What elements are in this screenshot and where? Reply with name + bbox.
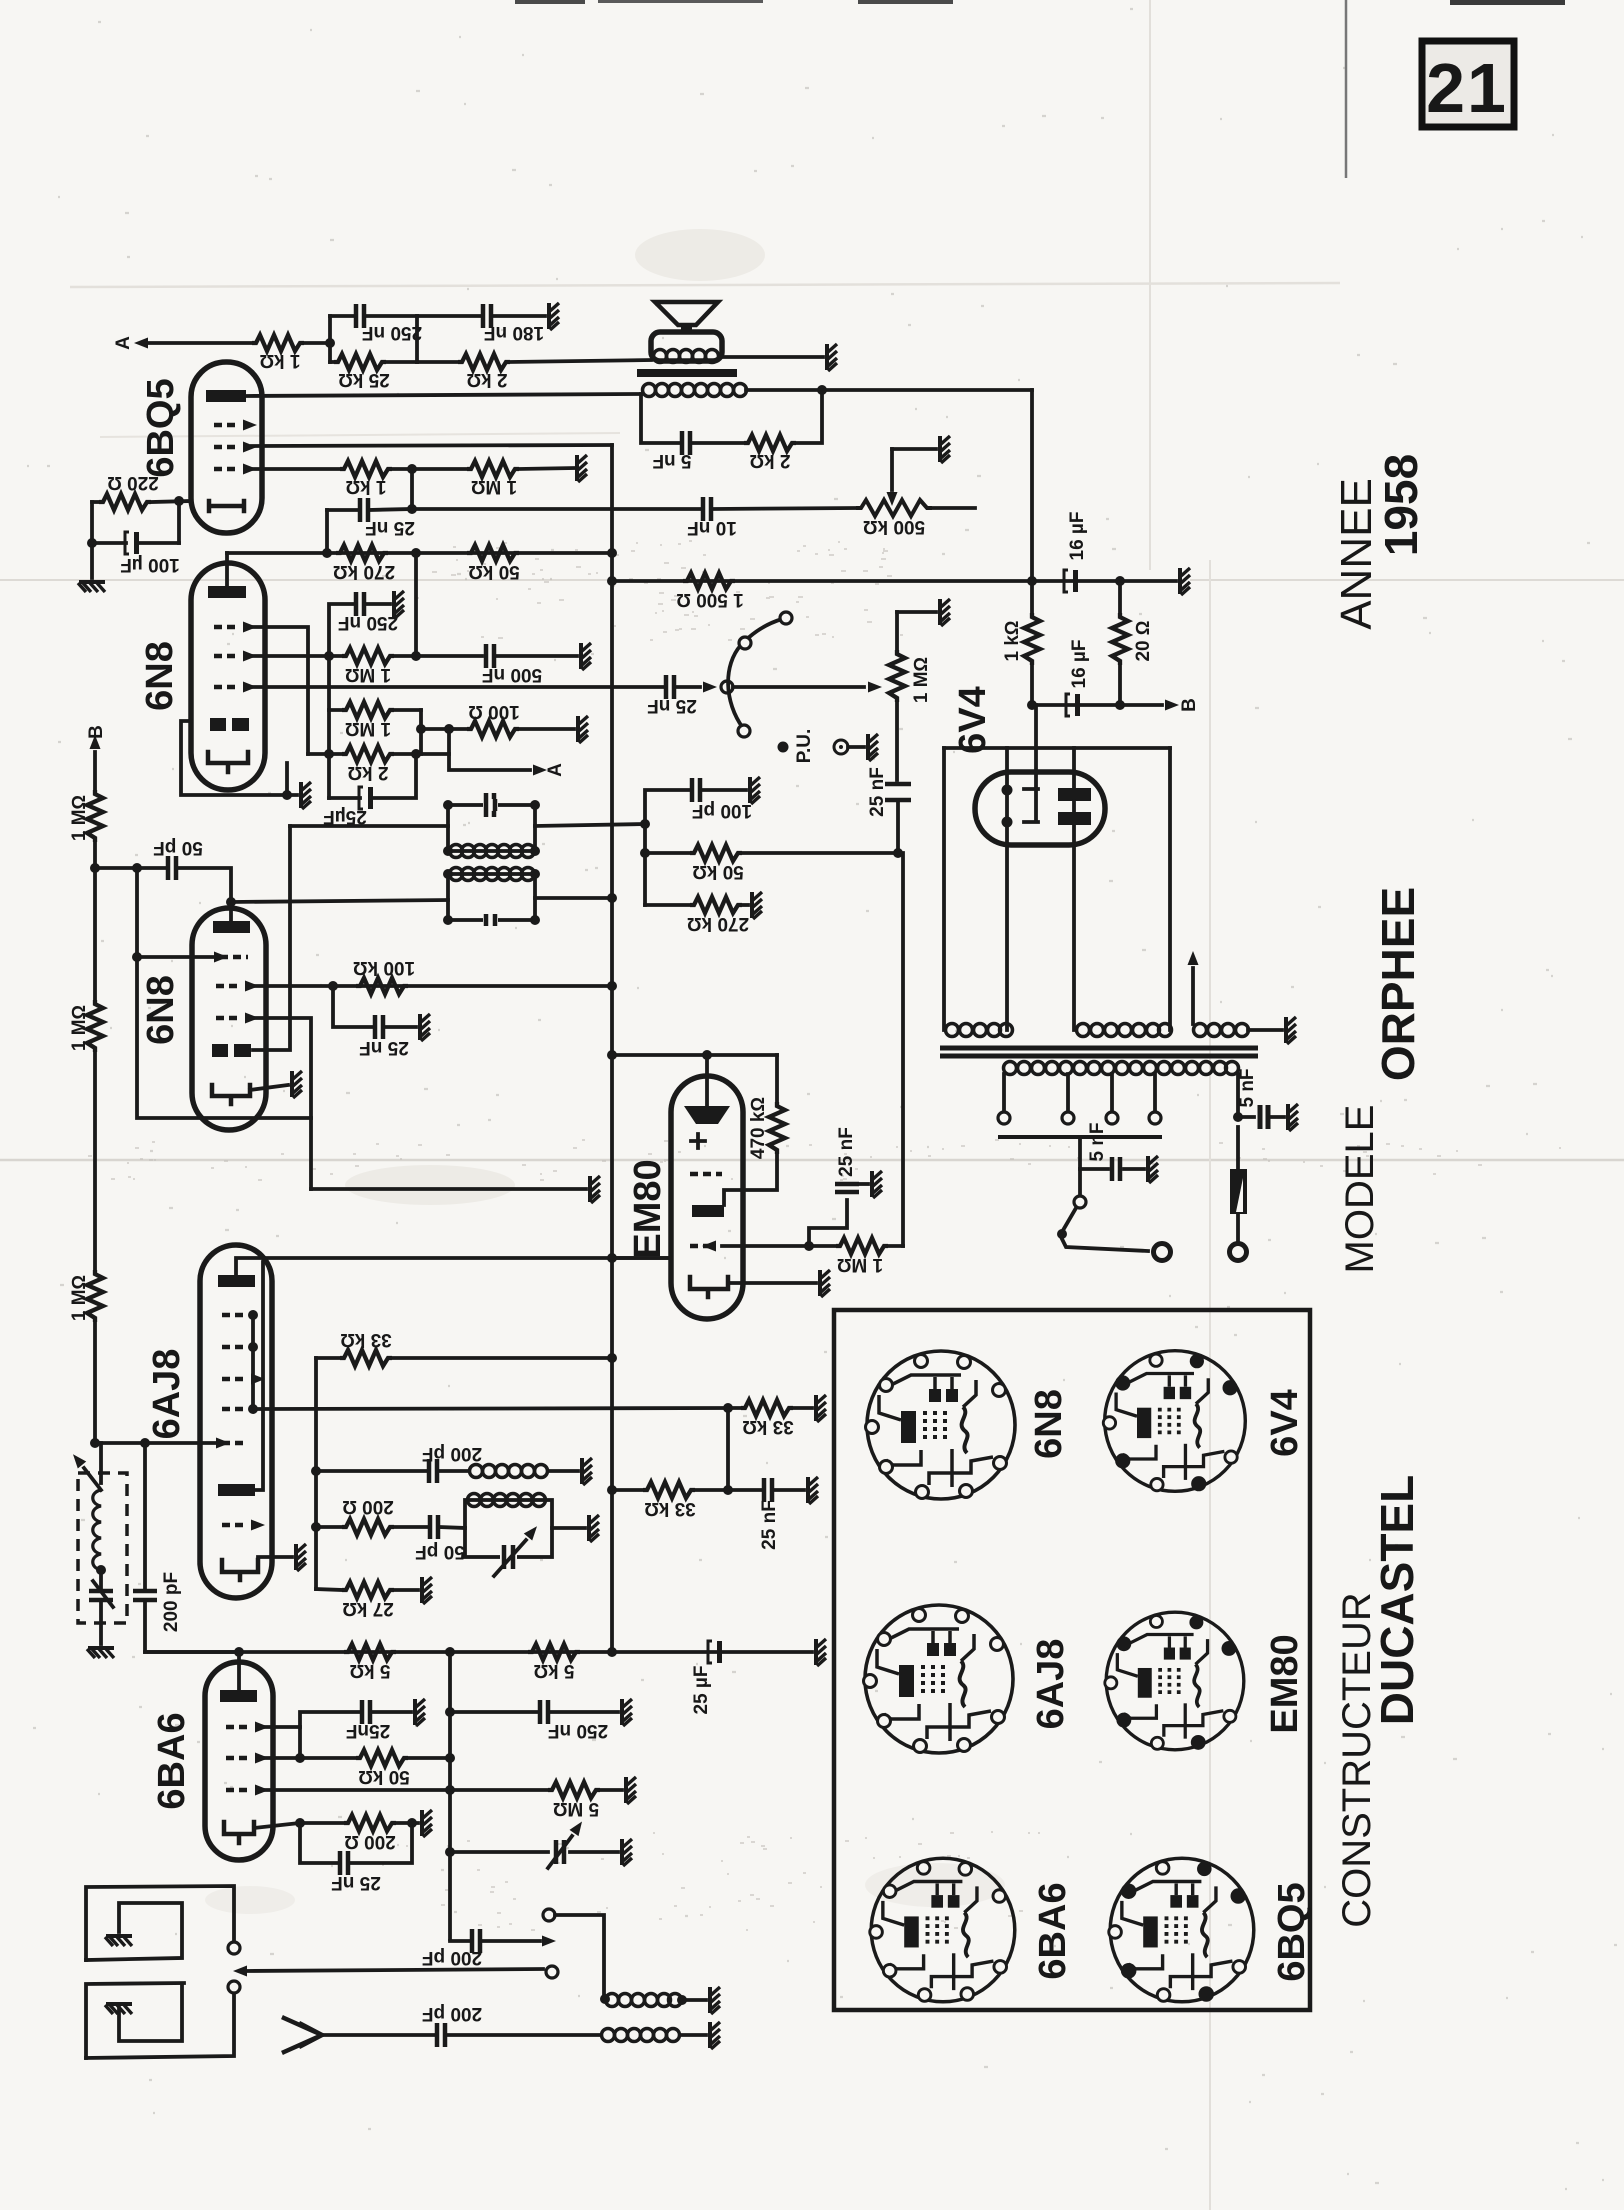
mains primary winding [1004, 1062, 1239, 1075]
svg-text:33 kΩ: 33 kΩ [742, 1416, 794, 1437]
svg-text:25 nF: 25 nF [365, 517, 415, 538]
capacitor 200 pF (IF takeoff) [422, 1929, 556, 1968]
band coil 1 [600, 1994, 706, 2007]
ground [422, 1577, 432, 1604]
wire grid tie rail [251, 1315, 255, 1409]
IF tank 2 (coil + capacitor) [443, 868, 540, 927]
ground [710, 2022, 720, 2049]
arrow heater takeoff [1188, 951, 1199, 1024]
selector wiper node [721, 681, 733, 693]
grid g3 row [216, 1013, 259, 1024]
svg-text:21: 21 [1426, 49, 1508, 127]
transformer core [637, 369, 737, 377]
resistor 1 MOhm (screen feed 3, vertical) [69, 1270, 103, 1443]
IF tank 1 (coil + capacitor) [443, 793, 540, 858]
svg-text:1 MΩ: 1 MΩ [69, 795, 90, 841]
ground [420, 1014, 430, 1041]
svg-text:100 kΩ: 100 kΩ [353, 957, 415, 978]
svg-text:B: B [86, 725, 107, 739]
arrow node A [444, 724, 566, 777]
ground [816, 1639, 826, 1666]
capacitor 200 pF (antenna) [322, 2003, 600, 2047]
tube 6N8 no.2 [192, 908, 266, 1130]
arrow node B [1165, 698, 1200, 712]
fuse [1230, 1127, 1248, 1261]
svg-text:25 nF: 25 nF [331, 1872, 381, 1893]
socket 6AJ8 [864, 1605, 1014, 1753]
grid row 2 [222, 1342, 258, 1352]
svg-text:25 kΩ: 25 kΩ [338, 369, 390, 390]
svg-text:5 MΩ: 5 MΩ [553, 1798, 599, 1819]
svg-text:50 kΩ: 50 kΩ [692, 861, 744, 882]
svg-text:33 kΩ: 33 kΩ [644, 1498, 696, 1519]
svg-text:100 Ω: 100 Ω [468, 701, 520, 722]
triode anode bar [218, 1484, 255, 1496]
grid row 2 [226, 1753, 269, 1764]
svg-text:1 kΩ: 1 kΩ [259, 350, 300, 371]
svg-text:200 pF: 200 pF [422, 1947, 482, 1968]
resistor 200 Ohm (cathode) [254, 1815, 418, 1852]
resistor 2 kOhm [417, 354, 651, 390]
cathode squares [212, 1044, 228, 1057]
wire HT down [1030, 390, 1034, 581]
wire grid out [722, 1244, 836, 1248]
node A feedback arrow [113, 336, 252, 350]
node [174, 496, 184, 506]
svg-text:33 kΩ: 33 kΩ [340, 1329, 392, 1350]
svg-text:MODELE: MODELE [1338, 1105, 1382, 1274]
cathode bracket 6BA6 [224, 1822, 254, 1843]
ground [87, 1648, 114, 1658]
voltage selector taps [998, 1074, 1162, 1137]
ground [622, 1839, 632, 1866]
wire B line [1032, 703, 1162, 707]
ground [710, 1987, 720, 2014]
svg-text:50 pF: 50 pF [415, 1541, 465, 1562]
capacitor 25 nF (PU coupling, vertical) [867, 767, 911, 853]
svg-text:180 nF: 180 nF [484, 322, 544, 343]
capacitor 25 nF (coupling) [327, 498, 415, 538]
ground [590, 1176, 600, 1203]
wire tank1 left [290, 824, 448, 828]
svg-text:200 pF: 200 pF [422, 2003, 482, 2024]
svg-text:200 pF: 200 pF [161, 1572, 182, 1632]
wire osc grid rail [314, 1358, 318, 1589]
resistor 1 MOhm (anode load) [342, 648, 482, 685]
grid g2 row [214, 651, 257, 662]
ground [820, 1270, 830, 1297]
svg-text:A: A [545, 763, 566, 777]
selector contact circles [738, 725, 750, 737]
svg-text:5 kΩ: 5 kΩ [533, 1660, 574, 1681]
wire side rails of divider [329, 656, 421, 798]
node P.U. [778, 729, 865, 764]
grid row 2 [690, 1241, 716, 1252]
svg-text:EM80: EM80 [1264, 1634, 1306, 1733]
svg-text:470 kΩ: 470 kΩ [748, 1097, 769, 1159]
capacitor 5 nF (mains filter left) [1080, 1122, 1144, 1181]
svg-text:5 kΩ: 5 kΩ [349, 1660, 390, 1681]
svg-text:6V4: 6V4 [952, 686, 994, 754]
mains transformer HT winding [1077, 1024, 1172, 1037]
wire plate lead over [1168, 748, 1172, 1030]
transformer core [940, 1048, 1258, 1056]
wire grid2 to 1M row [252, 654, 342, 658]
wire anode to bus row [236, 1258, 671, 1275]
capacitor 50 pF [415, 1515, 465, 1562]
ground [394, 591, 404, 618]
wire down to 270k row [325, 510, 329, 553]
cathode bracket 6AJ8 [222, 1560, 258, 1580]
electrolytic 25 uF [323, 754, 416, 827]
wire avc link [726, 1408, 730, 1490]
ground [577, 455, 587, 482]
svg-text:ANNEE: ANNEE [1332, 478, 1381, 630]
wire bottom HT row [145, 1650, 812, 1654]
svg-text:25 µF: 25 µF [691, 1666, 712, 1715]
wire B+ into cathode [1034, 705, 1038, 820]
capacitor 5 nF (mains filter right) [1233, 1068, 1284, 1129]
ground [752, 892, 762, 919]
antenna [284, 2018, 322, 2052]
mains transformer heater winding [946, 1024, 1013, 1037]
coupling terminal [543, 1909, 555, 1921]
svg-text:1958: 1958 [1375, 454, 1427, 556]
wire [415, 316, 419, 362]
capacitor 25 nF (AGC) [333, 986, 416, 1058]
ground [415, 1699, 425, 1726]
svg-text:100 pF: 100 pF [692, 800, 752, 821]
resistor 1 MOhm (divider upper) [329, 702, 421, 739]
svg-text:1 MΩ: 1 MΩ [69, 1005, 90, 1051]
eye target [684, 1076, 730, 1124]
capacitor 25 nF (eye grid) [809, 1127, 868, 1246]
arrow to selector [676, 682, 717, 693]
svg-text:25nF: 25nF [346, 1720, 390, 1741]
wire heater left leg [942, 748, 946, 1030]
anode bar [208, 586, 246, 598]
grid row 1 [690, 1172, 722, 1177]
wire tank1 right [535, 824, 645, 826]
wire HT bus vertical [610, 445, 614, 1652]
ground [292, 1071, 302, 1098]
svg-text:6BQ5: 6BQ5 [140, 378, 182, 477]
wire [328, 316, 332, 362]
wire branch down [643, 824, 647, 905]
ground [868, 734, 878, 761]
tube 6N8 no.1 [191, 563, 265, 790]
svg-text:25 nF: 25 nF [759, 1500, 780, 1550]
cathode bracket 6BQ5 [209, 501, 244, 511]
svg-text:1 500 Ω: 1 500 Ω [676, 589, 743, 610]
wire anode to IF tank 2 [229, 902, 233, 921]
page number box "21" [1422, 41, 1514, 127]
ground [578, 716, 588, 743]
svg-text:25 nF: 25 nF [867, 767, 888, 817]
wire node down [410, 469, 414, 509]
wire B+ rail [612, 579, 1176, 583]
capacitor 500 nF [482, 644, 577, 685]
cathode box wires [181, 721, 297, 795]
socket 6V4 [1103, 1351, 1245, 1492]
wire bus to heater [612, 1256, 671, 1260]
wave change terminal [546, 1966, 558, 1978]
ground [872, 1171, 882, 1198]
resistor 270 kOhm [333, 545, 395, 582]
band coil 2 [602, 2029, 707, 2042]
capacitor 250 nF [329, 592, 398, 656]
wire second triode feed [253, 826, 290, 1050]
svg-text:25 nF: 25 nF [359, 1037, 409, 1058]
wire 200 pF row [316, 1469, 427, 1473]
cathode squares 6N8 no.1 [210, 718, 226, 731]
ground [549, 303, 559, 330]
wire 416 down [414, 553, 418, 656]
ground [78, 582, 105, 592]
resistor 5 kOhm (left) [344, 1644, 396, 1681]
ground [1180, 568, 1190, 595]
wire triode anode inner rail [255, 1262, 263, 1490]
osc coil [470, 1465, 579, 1478]
wire [298, 1727, 302, 1758]
svg-text:6V4: 6V4 [1264, 1389, 1306, 1457]
node [407, 464, 417, 474]
ground [816, 1395, 826, 1422]
wire cathode ground [258, 1555, 292, 1559]
potentiometer 1 MOhm (volume, vertical) [889, 612, 936, 780]
svg-text:27 kΩ: 27 kΩ [342, 1598, 394, 1619]
grid row 6 (osc grid lower) [222, 1520, 265, 1531]
grid g1 row [214, 464, 257, 475]
wire voice coil to ground [722, 355, 823, 359]
anode bar [220, 1690, 257, 1702]
wire tone line to 10nF [412, 507, 701, 511]
wire AGC rail vertical [448, 1652, 452, 1939]
svg-text:250 nF: 250 nF [548, 1720, 608, 1741]
tuning capacitor (dashed box) [69, 1443, 127, 1644]
ground [582, 1458, 592, 1485]
svg-text:6BA6: 6BA6 [1032, 1882, 1074, 1979]
tube 6BQ5 [191, 362, 262, 533]
ground [301, 782, 311, 809]
svg-text:1 kΩ: 1 kΩ [1002, 620, 1023, 661]
svg-text:250 nF: 250 nF [338, 612, 398, 633]
svg-text:1 MΩ: 1 MΩ [837, 1254, 883, 1275]
resistor 1 MOhm (screen feed 1, vertical) [69, 790, 103, 1000]
svg-text:DUCASTEL: DUCASTEL [1371, 1475, 1423, 1725]
grid row 1 [226, 1722, 269, 1733]
node [1027, 576, 1037, 586]
resistor 33 kOhm (osc grid) [316, 1329, 617, 1366]
resistor 5 kOhm (right) [528, 1644, 580, 1681]
svg-text:P.U.: P.U. [794, 729, 815, 764]
tube 6V4 (horizontal) [975, 772, 1105, 845]
trimmer capacitor [450, 1818, 618, 1868]
resistor 33 kOhm (AVC 1) [728, 1400, 812, 1437]
wire anode up to 270k row [225, 553, 229, 586]
wire anode up [237, 1652, 241, 1690]
capacitor 10 nF [687, 497, 856, 538]
band switch section 1 [86, 1886, 240, 1960]
svg-text:5 nF: 5 nF [1087, 1122, 1108, 1161]
resistor 1 MOhm (eye grid series) [836, 1238, 903, 1275]
plus mark [691, 1134, 705, 1148]
svg-text:25 nF: 25 nF [836, 1127, 857, 1177]
grid g3 row [214, 420, 257, 431]
resistor 50 kOhm [467, 545, 520, 582]
svg-text:25 nF: 25 nF [647, 695, 697, 716]
socket EM80 [1105, 1612, 1244, 1750]
capacitor 250 nF [330, 304, 422, 343]
capacitor 200 pF (padder) [133, 1443, 239, 1652]
wire grid1 to 2k row [252, 627, 308, 754]
wire grid2 row [254, 984, 612, 988]
wire filament rail [944, 746, 1170, 750]
svg-text:220 Ω: 220 Ω [107, 472, 159, 493]
svg-text:270 kΩ: 270 kΩ [333, 561, 395, 582]
svg-text:20 Ω: 20 Ω [1133, 620, 1154, 661]
svg-text:25µF: 25µF [323, 806, 367, 827]
grid row 3 [226, 1785, 269, 1796]
wire anode to output transformer [246, 394, 641, 396]
ground [422, 1810, 432, 1837]
svg-text:200 Ω: 200 Ω [344, 1831, 396, 1852]
voice coil [654, 350, 719, 363]
ground [1148, 1156, 1158, 1183]
svg-text:2 kΩ: 2 kΩ [466, 369, 507, 390]
svg-text:5 nF: 5 nF [1237, 1068, 1258, 1107]
svg-text:16 µF: 16 µF [1069, 640, 1090, 689]
electrolytic 16 uF (second) [1066, 640, 1090, 716]
svg-text:1 kΩ: 1 kΩ [345, 476, 386, 497]
svg-text:A: A [113, 336, 134, 350]
resistor 2 kOhm (divider lower) [308, 746, 449, 783]
grid row 5 (signal grid) [216, 1438, 248, 1449]
capacitor 50 pF [95, 837, 231, 902]
svg-text:EM80: EM80 [627, 1159, 669, 1258]
mains switch [1057, 1169, 1171, 1261]
ground [622, 1699, 632, 1726]
resistor 20 Ohm (vertical) [1112, 581, 1154, 705]
wire 270k row [227, 551, 612, 555]
resistor 1500 Ohm [676, 573, 743, 610]
wire grid3 AGC line down [254, 1018, 311, 1189]
wire tank2 right to bus [535, 896, 612, 900]
ground [581, 643, 591, 670]
resistor 1 MOhm [467, 461, 574, 497]
resistor 5 MOhm (AGC) [262, 1782, 622, 1819]
wire primary right to HT [746, 388, 1032, 392]
wire tone row [252, 685, 664, 689]
selector arc [728, 619, 782, 728]
primary coil [643, 384, 747, 397]
socket 6BA6 [870, 1858, 1015, 2002]
svg-text:2 kΩ: 2 kΩ [347, 762, 388, 783]
resistor 50 kOhm (screen feed) [262, 1750, 450, 1787]
socket 6N8 [866, 1351, 1016, 1499]
grid row 4 [222, 1404, 258, 1414]
resistor 470 kOhm (vertical) [724, 1055, 785, 1205]
socket 6BQ5 [1109, 1858, 1254, 2002]
svg-text:2 kΩ: 2 kΩ [749, 450, 790, 471]
svg-text:6AJ8: 6AJ8 [146, 1349, 188, 1440]
loudspeaker [651, 302, 722, 361]
svg-text:50 pF: 50 pF [153, 837, 203, 858]
detector branch: capacitor 100 pF [645, 778, 752, 824]
wire eye HT feed [612, 1053, 777, 1057]
resistor 27 kOhm [316, 1582, 418, 1619]
wire [304, 341, 330, 345]
wire grid1 feed [137, 955, 214, 959]
svg-text:200 Ω: 200 Ω [342, 1496, 394, 1517]
ground [1286, 1017, 1296, 1044]
capacitor 25 nF (AVC) [759, 1478, 804, 1550]
ground [589, 1515, 599, 1542]
wire down left [90, 502, 94, 578]
wire grid to HT bus corner [252, 445, 612, 446]
anode bar [213, 921, 250, 933]
wire cathode to ground [728, 1281, 816, 1285]
resistor 25 kOhm [330, 354, 417, 390]
svg-text:270 kΩ: 270 kΩ [687, 913, 749, 934]
ground [296, 1544, 306, 1571]
svg-text:6BA6: 6BA6 [151, 1712, 193, 1809]
svg-text:1 MΩ: 1 MΩ [911, 657, 932, 703]
wire left rail down [137, 868, 311, 1118]
electrolytic 25 uF [691, 1641, 722, 1714]
arrow node B (left) [86, 725, 107, 790]
resistor 2 kOhm [744, 435, 796, 471]
ground (pot wiper) [940, 436, 950, 463]
svg-text:1 MΩ: 1 MΩ [69, 1275, 90, 1321]
capacitor 25 nF (cathode bypass) [300, 1818, 417, 1893]
mains transformer 6.3V winding [1194, 1024, 1249, 1037]
cathode resistor 220 Ohm [92, 472, 191, 510]
osc tank (coil + trimmer) [465, 1494, 585, 1577]
svg-text:6N8: 6N8 [140, 975, 182, 1045]
node (junction) [325, 338, 335, 348]
ground [827, 344, 837, 371]
wire to band coil [555, 1915, 604, 1997]
grid g3 row [214, 682, 257, 693]
capacitor 25 nF (tone) [647, 675, 697, 716]
grid g1 row (6N8 no.1) [214, 622, 257, 633]
ground (pot top) [940, 599, 950, 626]
svg-text:1 MΩ: 1 MΩ [345, 664, 391, 685]
tube 6BA6 [205, 1662, 273, 1860]
cathode bracket [212, 1085, 250, 1104]
resistor 270 kOhm [645, 897, 749, 934]
ground [626, 1777, 636, 1804]
grid g2 row [216, 981, 259, 992]
wire cathode to ground [250, 1085, 288, 1090]
anode bar (heptode) [218, 1275, 255, 1287]
wire winding to ground [1248, 1028, 1282, 1032]
svg-text:50 kΩ: 50 kΩ [358, 1766, 410, 1787]
resistor 200 Ohm [311, 1496, 428, 1535]
socket box frame [834, 1310, 1310, 2010]
resistor 1 MOhm (screen feed 2, vertical) [69, 1000, 103, 1270]
svg-text:50 kΩ: 50 kΩ [468, 561, 520, 582]
electrolytic 100 uF [92, 501, 180, 575]
svg-text:100 µF: 100 µF [120, 554, 180, 575]
tube 6AJ8 [200, 1245, 272, 1598]
resistor 1 kOhm (grid stopper) [252, 461, 392, 497]
resistor 1 kOhm (feedback) [252, 335, 304, 371]
grid g1 row [214, 952, 248, 963]
svg-text:6BQ5: 6BQ5 [1271, 1882, 1313, 1981]
electrolytic 16 uF (first) [1064, 512, 1088, 592]
